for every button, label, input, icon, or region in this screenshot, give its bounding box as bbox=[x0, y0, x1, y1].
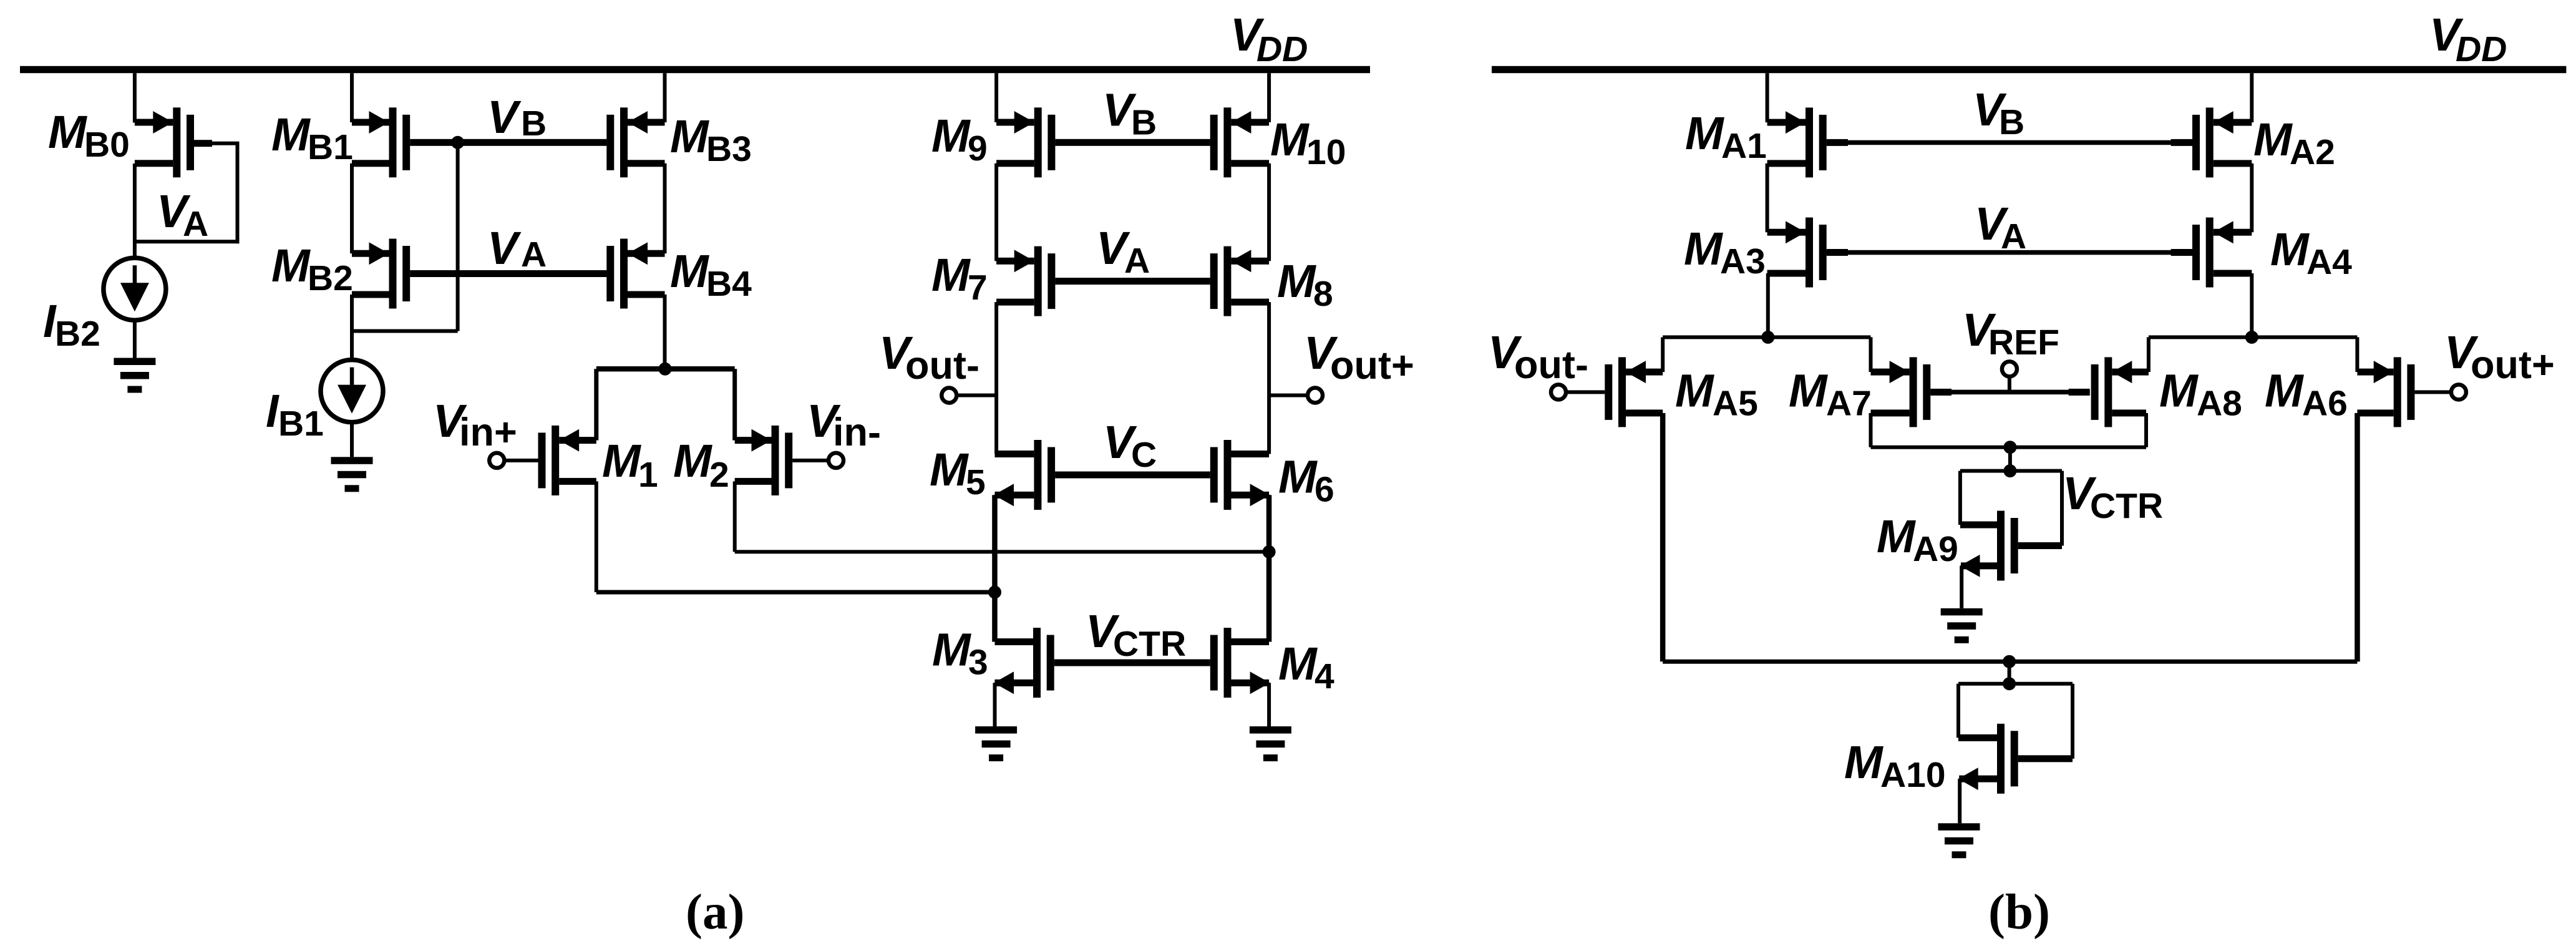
svg-text:(b): (b) bbox=[1988, 884, 2050, 940]
svg-text:A4: A4 bbox=[2306, 242, 2352, 282]
wire MB0 diode box bottom bbox=[133, 240, 239, 243]
label I_B1 bbox=[266, 385, 324, 444]
wire MA6 drain down bbox=[2355, 413, 2360, 661]
svg-text:2: 2 bbox=[709, 455, 729, 495]
terminal Vout- (b) bbox=[1551, 384, 1566, 399]
svg-text:A5: A5 bbox=[1713, 384, 1758, 424]
label M_9 bbox=[931, 110, 988, 168]
terminal VREF bbox=[2002, 361, 2017, 376]
wire MA2 source from VDD bbox=[2250, 73, 2253, 122]
svg-text:M: M bbox=[930, 444, 969, 495]
label M_B2 bbox=[271, 240, 353, 298]
svg-text:(a): (a) bbox=[686, 884, 744, 940]
wire MA7 drain down bbox=[1869, 413, 1873, 447]
svg-text:1: 1 bbox=[638, 455, 658, 495]
wire M7 drain down to M5 bbox=[994, 302, 998, 454]
label M_A2 bbox=[2253, 114, 2335, 172]
wire MB1 source from VDD bbox=[350, 73, 354, 122]
wire M10 drain to M8 source bbox=[1267, 163, 1271, 261]
wire MA7 gate stub bbox=[1930, 389, 1951, 396]
wire M2 drain to M6 column bbox=[735, 550, 1271, 553]
node MA10 loop junction dot bbox=[2003, 677, 2016, 690]
svg-text:DD: DD bbox=[1256, 29, 1308, 69]
wire M2 source up bbox=[732, 369, 737, 440]
wire VA gate bus MB2 to MB4 bbox=[410, 270, 606, 277]
label M_4 bbox=[1278, 638, 1334, 696]
wire Vout- to column bbox=[957, 394, 996, 397]
wire MA9 loop right side bbox=[2060, 471, 2064, 546]
label V_C bbox=[1103, 416, 1157, 475]
label M_B3 bbox=[670, 110, 752, 169]
svg-text:out+: out+ bbox=[1330, 344, 1414, 388]
wire MB0 diode box right side bbox=[236, 144, 240, 244]
ground under M3 bbox=[975, 726, 1017, 761]
wire MA1 source from VDD bbox=[1766, 73, 1769, 122]
wire VB-drain tie horizontal bbox=[352, 329, 458, 333]
terminal Vout- bbox=[941, 388, 956, 403]
svg-text:M: M bbox=[1685, 107, 1724, 159]
ground under IB2 bbox=[114, 358, 155, 393]
transistor MA10 (NMOS) bbox=[1958, 724, 2018, 794]
label V_DD (a) bbox=[1230, 9, 1308, 69]
svg-text:M: M bbox=[1877, 510, 1916, 562]
svg-text:7: 7 bbox=[968, 268, 988, 308]
wire tail line bbox=[596, 366, 735, 371]
node M2 drain junction dot bbox=[1263, 545, 1276, 558]
label I_B2 bbox=[43, 295, 100, 354]
svg-text:A8: A8 bbox=[2197, 384, 2242, 424]
VDD power rail (b) bbox=[1492, 66, 2566, 73]
svg-text:9: 9 bbox=[968, 129, 988, 168]
label M_A4 bbox=[2270, 223, 2352, 282]
wire MA10 gate lead bbox=[2018, 755, 2073, 762]
svg-text:B: B bbox=[1131, 103, 1157, 143]
wire VREF gate bus MA7 to MA8 bbox=[1930, 390, 2089, 395]
wire MA3 drain down to node bbox=[1766, 273, 1770, 337]
svg-text:A2: A2 bbox=[2290, 132, 2335, 172]
current source IB2 bbox=[104, 258, 166, 320]
label M_3 bbox=[932, 624, 988, 683]
node tail junction dot bbox=[659, 363, 672, 376]
label M_A3 bbox=[1684, 223, 1766, 281]
label V_A (cascode) bbox=[1096, 222, 1150, 281]
transistor MA4 (PMOS, mirrored) bbox=[2192, 218, 2252, 288]
wire MA1 drain to MA3 source bbox=[1766, 163, 1769, 232]
wire M1 source up bbox=[594, 369, 598, 440]
wire M6 source down to M4 bbox=[1266, 495, 1272, 641]
node MA9 loop junction dot bbox=[2003, 464, 2016, 477]
wire MB0 drain down bbox=[133, 163, 137, 258]
wire M3 source to ground bbox=[993, 683, 997, 726]
label M_8 bbox=[1277, 255, 1333, 314]
svg-text:M: M bbox=[2253, 114, 2293, 165]
wire VA gate bus MA3 to MA4 bbox=[1827, 250, 2192, 255]
wire MB3 drain to MB4 source bbox=[663, 163, 667, 253]
svg-text:A: A bbox=[183, 204, 208, 244]
node MA4 drain junction dot bbox=[2245, 331, 2258, 344]
wire MA4 gate stub bbox=[2171, 249, 2192, 256]
node VB junction dot bbox=[451, 136, 464, 149]
label M_A6 bbox=[2265, 365, 2348, 424]
wire Vout+ to column bbox=[1269, 394, 1307, 397]
transistor M10 (PMOS, mirrored) bbox=[1210, 107, 1269, 177]
label M_A9 bbox=[1877, 510, 1958, 569]
wire Vin+ to M1 gate bbox=[505, 459, 538, 462]
svg-text:M: M bbox=[1278, 638, 1318, 690]
svg-text:M: M bbox=[48, 106, 87, 158]
svg-text:B1: B1 bbox=[308, 127, 353, 167]
wire MA4 drain down to node bbox=[2250, 273, 2253, 337]
wire MA8 drain down bbox=[2144, 413, 2148, 447]
label M_A1 bbox=[1685, 107, 1767, 166]
wire MB2 drain down to IB1 bbox=[350, 295, 354, 360]
svg-text:M: M bbox=[2265, 365, 2304, 417]
wire MA8 source up bbox=[2147, 337, 2151, 372]
wire MB0 gate stub bbox=[194, 140, 212, 147]
svg-text:REF: REF bbox=[1988, 323, 2059, 363]
wire VREF terminal lead bbox=[2008, 376, 2011, 392]
svg-text:M: M bbox=[602, 435, 641, 487]
label V_in- bbox=[807, 395, 881, 454]
svg-text:out-: out- bbox=[905, 344, 979, 388]
current source IB1 bbox=[321, 360, 383, 422]
wire down to MA9 loop bbox=[2008, 447, 2012, 471]
label M_A5 bbox=[1675, 365, 1758, 424]
svg-text:M: M bbox=[931, 110, 971, 162]
svg-text:B0: B0 bbox=[84, 125, 130, 165]
svg-text:M: M bbox=[1277, 255, 1316, 307]
svg-text:A: A bbox=[2001, 217, 2026, 256]
label M_5 bbox=[930, 444, 986, 502]
svg-text:in+: in+ bbox=[459, 411, 517, 454]
svg-text:B1: B1 bbox=[278, 404, 324, 444]
caption (a) bbox=[686, 884, 744, 940]
transistor MA1 (PMOS) bbox=[1767, 107, 1827, 177]
terminal Vin+ bbox=[489, 453, 504, 468]
ground under MA10 bbox=[1938, 823, 1980, 858]
ground under M4 bbox=[1250, 726, 1291, 761]
svg-text:M: M bbox=[1278, 451, 1318, 503]
svg-text:A6: A6 bbox=[2302, 384, 2348, 424]
transistor M8 (PMOS, mirrored) bbox=[1210, 246, 1269, 316]
wire VB node down bbox=[456, 142, 460, 331]
transistor MA5 (PMOS, mirrored) bbox=[1605, 357, 1663, 427]
transistor MB1 (PMOS) bbox=[352, 107, 410, 177]
label M_A8 bbox=[2159, 365, 2242, 424]
svg-text:A9: A9 bbox=[1913, 529, 1958, 569]
svg-text:10: 10 bbox=[1306, 132, 1346, 172]
svg-text:3: 3 bbox=[968, 643, 988, 683]
label V_out+ (b) bbox=[2444, 326, 2555, 387]
svg-text:in-: in- bbox=[833, 411, 881, 454]
wire VA gate bus M7 to M8 bbox=[1055, 278, 1210, 285]
wire MA5 drain down bbox=[1660, 413, 1666, 661]
wire MA9 drain up bbox=[1958, 471, 1962, 525]
label V_A (b) bbox=[1975, 198, 2026, 256]
node M1 drain junction dot bbox=[988, 586, 1001, 599]
svg-text:B2: B2 bbox=[308, 258, 353, 298]
wire MA9 diode loop top bbox=[1960, 469, 2062, 473]
transistor M7 (PMOS) bbox=[996, 246, 1055, 316]
svg-text:8: 8 bbox=[1313, 274, 1333, 314]
label V_B (b) bbox=[1973, 84, 2024, 142]
svg-text:I: I bbox=[266, 385, 279, 437]
wire down to MA10 loop bbox=[2008, 661, 2011, 684]
label V_A node of MB0 bbox=[157, 185, 208, 244]
wire MA10 source to ground bbox=[1958, 779, 1961, 823]
svg-text:M: M bbox=[1270, 114, 1310, 165]
wire M9 source from VDD bbox=[994, 73, 998, 122]
terminal Vout+ (b) bbox=[2451, 384, 2466, 399]
terminal Vin- bbox=[829, 453, 843, 468]
svg-text:M: M bbox=[271, 240, 311, 291]
label V_B (cascode) bbox=[1102, 84, 1157, 143]
wire MB0 source from VDD bbox=[133, 73, 137, 122]
transistor MA8 (PMOS, mirrored) bbox=[2091, 357, 2149, 427]
label V_A (bias) bbox=[487, 222, 547, 275]
svg-text:M: M bbox=[2270, 223, 2310, 275]
svg-text:A: A bbox=[521, 235, 547, 275]
label V_REF bbox=[1962, 304, 2059, 363]
label M_B4 bbox=[670, 245, 752, 304]
wire MA1 gate stub bbox=[1827, 139, 1848, 146]
wire CMFB sense line bbox=[1663, 660, 2357, 664]
transistor M1 (PMOS, mirrored) bbox=[538, 426, 596, 495]
wire M4 source to ground bbox=[1267, 683, 1271, 726]
label M_B0 bbox=[48, 106, 130, 165]
svg-text:M: M bbox=[931, 249, 971, 301]
label M_A10 bbox=[1844, 736, 1946, 795]
wire MA8 gate stub bbox=[2069, 389, 2090, 396]
wire MA10 drain up bbox=[1956, 684, 1960, 738]
wire VB gate bus MB1 to MB3 bbox=[410, 139, 606, 146]
transistor MB4 (PMOS, mirrored) bbox=[606, 239, 664, 309]
transistor M4 (NMOS, mirrored) bbox=[1210, 628, 1270, 698]
svg-text:A: A bbox=[1124, 241, 1150, 281]
transistor MA7 (PMOS) bbox=[1871, 357, 1931, 427]
wire MB4 drain to tail node bbox=[663, 295, 667, 369]
transistor M6 (NMOS, mirrored) bbox=[1210, 440, 1270, 510]
svg-text:M: M bbox=[1684, 223, 1723, 275]
label M_6 bbox=[1278, 451, 1334, 510]
node drain tie junction dot bbox=[2003, 441, 2016, 454]
wire MA7-MA8 drain tie line bbox=[1871, 446, 2147, 449]
caption (b) bbox=[1988, 884, 2050, 940]
node MA3 drain junction dot bbox=[1761, 331, 1774, 344]
label V_out- bbox=[879, 327, 979, 388]
transistor MB2 (PMOS) bbox=[352, 239, 410, 309]
ground under IB1 bbox=[331, 457, 373, 492]
svg-text:M: M bbox=[2159, 365, 2199, 417]
svg-text:B2: B2 bbox=[55, 314, 100, 354]
label M_B1 bbox=[271, 109, 353, 167]
svg-text:DD: DD bbox=[2456, 29, 2507, 69]
label V_out- (b) bbox=[1488, 326, 1588, 387]
svg-text:4: 4 bbox=[1315, 656, 1334, 696]
svg-text:A7: A7 bbox=[1826, 384, 1872, 424]
svg-text:M: M bbox=[271, 109, 311, 160]
wire VC gate bus M5 to M6 bbox=[1055, 472, 1210, 479]
transistor MA3 (PMOS) bbox=[1767, 218, 1827, 288]
wire M9 drain to M7 source bbox=[994, 163, 998, 261]
transistor MA9 (NMOS) bbox=[1960, 511, 2018, 581]
svg-text:B4: B4 bbox=[706, 264, 752, 304]
wire M2 gate to Vin- bbox=[792, 459, 829, 462]
svg-text:V: V bbox=[487, 222, 522, 274]
wire MB0 gate to box bbox=[212, 142, 240, 145]
svg-text:M: M bbox=[1675, 365, 1714, 417]
wire VCTR gate bus M3 to M4 bbox=[1054, 660, 1210, 666]
transistor MB3 (PMOS, mirrored) bbox=[606, 107, 664, 177]
wire M2 drain down bbox=[733, 481, 737, 552]
svg-text:M: M bbox=[1789, 365, 1828, 417]
label V_CTR bbox=[1086, 605, 1186, 664]
svg-text:M: M bbox=[1844, 736, 1883, 788]
label V_CTR (b) bbox=[2063, 467, 2163, 526]
svg-text:A10: A10 bbox=[1880, 755, 1946, 795]
transistor M2 (PMOS) bbox=[735, 426, 793, 495]
label V_out+ bbox=[1304, 327, 1414, 388]
svg-text:out+: out+ bbox=[2471, 343, 2555, 387]
svg-text:B: B bbox=[1999, 102, 2024, 142]
svg-text:A1: A1 bbox=[1721, 126, 1767, 166]
wire M8 drain down to M6 bbox=[1267, 302, 1271, 454]
VDD power rail (a) bbox=[20, 66, 1370, 73]
wire MA2 drain to MA4 source bbox=[2250, 163, 2253, 232]
wire MA3 gate stub bbox=[1827, 249, 1848, 256]
label M_10 bbox=[1270, 114, 1346, 172]
wire MA5 source up bbox=[1661, 337, 1665, 372]
label M_2 bbox=[673, 435, 729, 495]
label V_DD (b) bbox=[2429, 9, 2507, 69]
wire IB2 to ground bbox=[133, 320, 137, 358]
transistor M9 (PMOS) bbox=[996, 107, 1055, 177]
label M_A7 bbox=[1789, 365, 1872, 424]
label V_B (bias) bbox=[487, 91, 547, 144]
wire right source node line bbox=[2149, 335, 2358, 339]
wire MA6 source up bbox=[2355, 337, 2359, 372]
wire M1 drain down bbox=[595, 481, 598, 592]
wire MA9 gate lead bbox=[2018, 542, 2062, 549]
wire MA2 gate stub bbox=[2171, 139, 2192, 146]
svg-text:M: M bbox=[673, 435, 712, 487]
wire MA6 gate to Vout+ bbox=[2414, 390, 2451, 394]
wire M5 source down to M3 bbox=[992, 495, 998, 641]
wire M10 source from VDD bbox=[1267, 73, 1271, 122]
wire left source node line bbox=[1663, 335, 1870, 339]
svg-text:B3: B3 bbox=[706, 129, 752, 169]
svg-text:M: M bbox=[670, 245, 709, 297]
transistor MA6 (PMOS) bbox=[2357, 357, 2414, 427]
transistor M5 (NMOS) bbox=[994, 440, 1055, 510]
wire MB3 source from VDD bbox=[663, 73, 667, 122]
svg-text:CTR: CTR bbox=[2090, 486, 2163, 526]
terminal Vout+ bbox=[1308, 388, 1323, 403]
wire MB1 drain to MB2 source bbox=[350, 163, 354, 253]
transistor MA2 (PMOS, mirrored) bbox=[2192, 107, 2252, 177]
wire MA10 loop right side bbox=[2071, 684, 2074, 759]
svg-text:5: 5 bbox=[966, 462, 986, 502]
label V_in+ bbox=[433, 395, 517, 454]
svg-text:C: C bbox=[1131, 435, 1157, 475]
svg-text:B: B bbox=[521, 104, 547, 144]
wire MA7 source up bbox=[1869, 337, 1873, 372]
label M_1 bbox=[602, 435, 658, 495]
node sense line junction dot bbox=[2003, 655, 2016, 668]
svg-text:A3: A3 bbox=[1720, 241, 1766, 281]
wire MA10 diode loop top bbox=[1958, 682, 2073, 686]
wire VB gate bus MA1 to MA2 bbox=[1827, 140, 2192, 145]
wire Vout- to MA5 gate bbox=[1567, 390, 1605, 394]
svg-text:M: M bbox=[670, 110, 709, 162]
svg-text:M: M bbox=[932, 624, 971, 676]
transistor MB0 (PMOS) bbox=[135, 107, 194, 177]
wire IB1 to ground bbox=[350, 422, 354, 457]
svg-text:CTR: CTR bbox=[1113, 624, 1186, 664]
svg-text:6: 6 bbox=[1315, 470, 1334, 510]
svg-text:out-: out- bbox=[1514, 343, 1588, 387]
ground under MA9 bbox=[1941, 608, 1983, 643]
wire M1 drain to M5 column bbox=[596, 590, 996, 595]
label M_7 bbox=[931, 249, 988, 308]
wire VB gate bus M9 to M10 bbox=[1055, 139, 1210, 146]
svg-text:V: V bbox=[487, 91, 522, 143]
wire MA9 source to ground bbox=[1960, 566, 1963, 608]
transistor M3 (NMOS) bbox=[994, 628, 1054, 698]
